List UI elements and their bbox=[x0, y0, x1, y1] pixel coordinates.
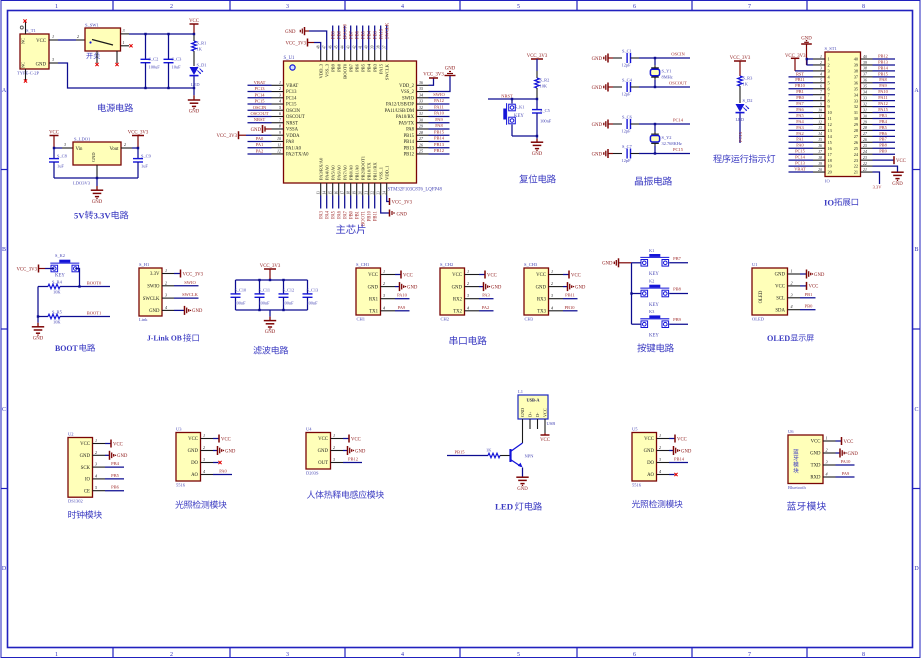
svg-text:S_Y1: S_Y1 bbox=[662, 69, 672, 74]
svg-text:12pF: 12pF bbox=[622, 63, 632, 68]
svg-text:GND: GND bbox=[644, 449, 655, 454]
svg-text:OSCIN: OSCIN bbox=[253, 105, 267, 110]
svg-text:PB9: PB9 bbox=[331, 30, 336, 39]
svg-text:PC15: PC15 bbox=[673, 147, 684, 152]
svg-text:17: 17 bbox=[341, 191, 345, 195]
svg-text:18: 18 bbox=[828, 158, 832, 163]
svg-text:D-: D- bbox=[535, 412, 540, 417]
svg-text:VDD_2: VDD_2 bbox=[399, 84, 414, 89]
svg-text:GND: GND bbox=[491, 285, 502, 290]
svg-text:1: 1 bbox=[165, 268, 167, 273]
svg-text:GND: GND bbox=[810, 452, 821, 457]
svg-text:100nF: 100nF bbox=[259, 301, 271, 306]
svg-text:34: 34 bbox=[863, 91, 867, 95]
svg-text:S_CH1: S_CH1 bbox=[356, 262, 369, 267]
svg-text:A: A bbox=[2, 88, 7, 94]
svg-text:USB: USB bbox=[547, 421, 556, 426]
svg-text:VCC: VCC bbox=[536, 273, 546, 278]
svg-text:C: C bbox=[2, 407, 6, 413]
svg-text:S_T1: S_T1 bbox=[26, 28, 36, 33]
svg-text:18: 18 bbox=[347, 191, 351, 195]
svg-text:OSCOUT: OSCOUT bbox=[669, 81, 687, 86]
svg-text:1: 1 bbox=[279, 80, 281, 85]
svg-text:PC13: PC13 bbox=[286, 90, 297, 95]
svg-text:40: 40 bbox=[863, 55, 867, 59]
svg-text:4: 4 bbox=[401, 652, 404, 658]
svg-text:VCC: VCC bbox=[318, 437, 328, 442]
svg-text:OSCOUT: OSCOUT bbox=[250, 111, 268, 116]
svg-text:PA9: PA9 bbox=[842, 471, 850, 476]
svg-text:GND: GND bbox=[407, 285, 418, 290]
svg-text:GND: GND bbox=[892, 182, 903, 187]
svg-text:GND: GND bbox=[91, 152, 96, 162]
svg-text:3: 3 bbox=[820, 67, 822, 71]
svg-text:PA7/A0: PA7/A0 bbox=[342, 165, 347, 180]
svg-text:PA15: PA15 bbox=[378, 63, 383, 74]
svg-text:12pF: 12pF bbox=[622, 129, 632, 134]
svg-text:PA0: PA0 bbox=[256, 136, 264, 141]
svg-text:PB3: PB3 bbox=[879, 113, 887, 118]
svg-text:32.768KHz: 32.768KHz bbox=[662, 141, 682, 146]
svg-text:PC13: PC13 bbox=[254, 86, 265, 91]
svg-text:B: B bbox=[2, 247, 6, 253]
svg-text:PB2/BOOT1: PB2/BOOT1 bbox=[360, 155, 365, 180]
svg-text:GND: GND bbox=[575, 285, 586, 290]
svg-text:GND: GND bbox=[285, 30, 296, 35]
svg-text:PA5/A0: PA5/A0 bbox=[330, 165, 335, 180]
svg-text:S_R5: S_R5 bbox=[52, 310, 63, 315]
svg-text:19: 19 bbox=[818, 162, 822, 166]
svg-text:1: 1 bbox=[203, 433, 205, 438]
svg-text:12: 12 bbox=[277, 149, 281, 154]
svg-text:VCC: VCC bbox=[188, 437, 198, 442]
svg-text:GND: GND bbox=[592, 152, 603, 157]
svg-text:OLED: OLED bbox=[767, 334, 790, 343]
svg-text:1K: 1K bbox=[197, 47, 203, 52]
svg-text:PA3: PA3 bbox=[319, 210, 324, 219]
svg-text:PB0: PB0 bbox=[349, 210, 354, 219]
svg-text:24: 24 bbox=[863, 150, 867, 154]
svg-text:PA4: PA4 bbox=[325, 210, 330, 219]
svg-text:PB13: PB13 bbox=[404, 146, 415, 151]
svg-text:S_U1: S_U1 bbox=[284, 56, 296, 61]
svg-text:AO: AO bbox=[191, 473, 198, 478]
svg-text:PB4: PB4 bbox=[111, 461, 120, 466]
svg-text:3.3V: 3.3V bbox=[94, 211, 112, 221]
svg-text:GND: GND bbox=[452, 285, 463, 290]
svg-text:SCL: SCL bbox=[776, 297, 785, 302]
svg-text:PC14: PC14 bbox=[254, 92, 265, 97]
svg-text:GND: GND bbox=[848, 452, 859, 457]
svg-text:DO: DO bbox=[191, 461, 198, 466]
svg-text:GND: GND bbox=[592, 123, 603, 128]
svg-text:PA7: PA7 bbox=[796, 101, 804, 106]
svg-text:IO: IO bbox=[825, 179, 830, 184]
svg-text:7: 7 bbox=[748, 4, 751, 10]
svg-text:PA10: PA10 bbox=[397, 293, 408, 298]
svg-text:KEY: KEY bbox=[514, 114, 524, 119]
svg-text:31: 31 bbox=[863, 108, 867, 112]
svg-text:PA15: PA15 bbox=[379, 28, 384, 39]
svg-text:2: 2 bbox=[826, 448, 828, 453]
svg-text:S_C4: S_C4 bbox=[622, 78, 633, 83]
svg-text:33: 33 bbox=[854, 98, 858, 103]
svg-text:S_C7: S_C7 bbox=[622, 144, 633, 149]
svg-text:PB3: PB3 bbox=[373, 30, 378, 39]
svg-text:PB1/A0: PB1/A0 bbox=[354, 164, 359, 180]
svg-text:VCC: VCC bbox=[49, 130, 59, 135]
svg-text:CH2: CH2 bbox=[441, 317, 450, 322]
svg-text:VCC_3V3: VCC_3V3 bbox=[392, 201, 413, 206]
svg-text:4: 4 bbox=[467, 305, 469, 310]
svg-text:8: 8 bbox=[862, 4, 865, 10]
svg-text:28: 28 bbox=[854, 128, 858, 133]
svg-text:RX2: RX2 bbox=[453, 297, 463, 302]
svg-text:38: 38 bbox=[863, 67, 867, 71]
svg-text:40: 40 bbox=[854, 57, 858, 62]
svg-text:3: 3 bbox=[64, 142, 66, 147]
svg-text:SWIO: SWIO bbox=[184, 280, 196, 285]
svg-text:9: 9 bbox=[820, 102, 822, 106]
svg-text:S_H1: S_H1 bbox=[139, 262, 149, 267]
svg-text:PB7: PB7 bbox=[673, 256, 682, 261]
svg-text:KEY: KEY bbox=[649, 272, 659, 277]
svg-text:BOOT: BOOT bbox=[55, 344, 79, 353]
svg-text:PB15: PB15 bbox=[454, 449, 465, 454]
svg-text:GND: GND bbox=[520, 408, 525, 417]
svg-text:PC14: PC14 bbox=[673, 118, 684, 123]
svg-text:GND: GND bbox=[532, 152, 543, 157]
svg-text:10K: 10K bbox=[53, 290, 61, 295]
svg-text:100nF: 100nF bbox=[307, 301, 319, 306]
svg-text:14: 14 bbox=[818, 132, 822, 136]
svg-text:PA12: PA12 bbox=[878, 101, 888, 106]
svg-text:VDD_1: VDD_1 bbox=[384, 165, 389, 180]
svg-text:PA8: PA8 bbox=[406, 128, 415, 133]
svg-text:26: 26 bbox=[419, 142, 423, 147]
svg-text:OUT: OUT bbox=[318, 461, 328, 466]
svg-text:PB15: PB15 bbox=[434, 129, 445, 134]
svg-text:3: 3 bbox=[165, 293, 167, 298]
svg-text:LED: LED bbox=[495, 502, 513, 512]
svg-text:OLED: OLED bbox=[759, 290, 764, 303]
svg-text:VSS_2: VSS_2 bbox=[401, 90, 415, 95]
svg-text:U1: U1 bbox=[752, 262, 758, 267]
svg-text:SWCLK: SWCLK bbox=[385, 22, 390, 39]
svg-text:PB7: PB7 bbox=[879, 137, 887, 142]
svg-text:PA6: PA6 bbox=[796, 107, 804, 112]
svg-text:VCC: VCC bbox=[221, 437, 231, 442]
svg-text:S_R2: S_R2 bbox=[540, 78, 550, 83]
svg-text:3: 3 bbox=[467, 293, 469, 298]
svg-text:PC14: PC14 bbox=[795, 155, 806, 160]
svg-text:TX1: TX1 bbox=[369, 310, 378, 315]
svg-text:D+: D+ bbox=[528, 411, 533, 417]
svg-text:STM32F103C8T6_LQFP48: STM32F103C8T6_LQFP48 bbox=[388, 188, 443, 193]
svg-text:23: 23 bbox=[377, 191, 381, 195]
svg-text:21: 21 bbox=[854, 170, 858, 175]
svg-text:19: 19 bbox=[828, 164, 832, 169]
svg-text:PA10: PA10 bbox=[878, 89, 888, 94]
svg-text:VBAT: VBAT bbox=[286, 84, 298, 89]
svg-text:S_C12: S_C12 bbox=[283, 288, 295, 293]
svg-text:1: 1 bbox=[52, 34, 54, 39]
svg-text:15: 15 bbox=[818, 138, 822, 142]
svg-text:25: 25 bbox=[854, 146, 858, 151]
svg-text:16: 16 bbox=[335, 191, 339, 195]
svg-text:PB8: PB8 bbox=[337, 30, 342, 39]
svg-text:PB14: PB14 bbox=[674, 457, 685, 462]
svg-text:VCC_3V3: VCC_3V3 bbox=[260, 264, 281, 269]
svg-text:PB9: PB9 bbox=[879, 149, 887, 154]
svg-text:S_R1: S_R1 bbox=[197, 41, 207, 46]
svg-text:VCC: VCC bbox=[113, 442, 123, 447]
svg-text:PB10: PB10 bbox=[564, 305, 575, 310]
svg-text:PA12/USB/DP: PA12/USB/DP bbox=[386, 103, 414, 108]
svg-text:2: 2 bbox=[333, 445, 335, 450]
svg-text:PB4: PB4 bbox=[366, 63, 371, 72]
svg-text:12pF: 12pF bbox=[622, 158, 632, 163]
svg-text:LDO3V3: LDO3V3 bbox=[73, 181, 91, 186]
svg-text:10: 10 bbox=[277, 136, 281, 141]
svg-text:GND: GND bbox=[355, 449, 366, 454]
svg-text:25: 25 bbox=[863, 144, 867, 148]
svg-text:1uF: 1uF bbox=[141, 164, 148, 169]
svg-text:20: 20 bbox=[818, 168, 822, 172]
svg-text:39: 39 bbox=[854, 63, 858, 68]
svg-text:SCK: SCK bbox=[81, 466, 91, 471]
svg-text:VCC_3V3: VCC_3V3 bbox=[527, 54, 548, 59]
svg-text:GND: GND bbox=[445, 67, 456, 72]
svg-text:21: 21 bbox=[863, 168, 867, 172]
svg-text:2: 2 bbox=[170, 4, 173, 10]
svg-text:8: 8 bbox=[279, 124, 281, 129]
svg-text:VDD_3: VDD_3 bbox=[318, 63, 323, 78]
svg-text:PA8: PA8 bbox=[435, 123, 443, 128]
svg-text:KEY: KEY bbox=[649, 303, 659, 308]
svg-text:SWIO: SWIO bbox=[402, 96, 415, 101]
svg-text:D203S: D203S bbox=[306, 471, 319, 476]
svg-text:VCC: VCC bbox=[896, 159, 906, 164]
svg-text:S_R4: S_R4 bbox=[52, 280, 63, 285]
svg-text:TXD: TXD bbox=[811, 464, 821, 469]
svg-text:PA7: PA7 bbox=[343, 210, 348, 219]
svg-text:9: 9 bbox=[828, 104, 830, 109]
svg-text:1: 1 bbox=[95, 438, 97, 443]
svg-text:PB1: PB1 bbox=[805, 292, 813, 297]
svg-text:29: 29 bbox=[419, 124, 423, 129]
svg-text:CE: CE bbox=[84, 489, 90, 494]
svg-text:12pF: 12pF bbox=[622, 92, 632, 97]
svg-text:VCC: VCC bbox=[571, 273, 581, 278]
svg-text:9: 9 bbox=[279, 130, 281, 135]
svg-text:8MHz: 8MHz bbox=[662, 75, 673, 80]
svg-text:PB4: PB4 bbox=[367, 30, 372, 39]
svg-text:3: 3 bbox=[828, 69, 830, 74]
svg-text:S_D1: S_D1 bbox=[197, 63, 207, 68]
svg-text:VCC_3V3: VCC_3V3 bbox=[285, 42, 306, 47]
svg-text:PC15: PC15 bbox=[254, 99, 265, 104]
svg-text:1: 1 bbox=[467, 269, 469, 274]
svg-text:PA11: PA11 bbox=[434, 104, 444, 109]
svg-text:NRST: NRST bbox=[254, 117, 266, 122]
svg-text:K3: K3 bbox=[649, 309, 655, 314]
svg-text:PA6/A0: PA6/A0 bbox=[336, 165, 341, 180]
svg-text:PB12: PB12 bbox=[878, 53, 888, 58]
svg-text:5516: 5516 bbox=[632, 483, 642, 488]
svg-text:36: 36 bbox=[863, 79, 867, 83]
svg-text:100nF: 100nF bbox=[235, 301, 247, 306]
svg-text:1: 1 bbox=[551, 269, 553, 274]
svg-text:PA2: PA2 bbox=[482, 305, 490, 310]
svg-text:BOOT0: BOOT0 bbox=[343, 23, 348, 39]
svg-text:PB1: PB1 bbox=[355, 210, 360, 219]
svg-text:PB6: PB6 bbox=[879, 131, 887, 136]
svg-text:S_R3: S_R3 bbox=[743, 76, 754, 81]
svg-text:18: 18 bbox=[818, 156, 822, 160]
svg-text:8: 8 bbox=[820, 96, 822, 100]
svg-text:SWCLK: SWCLK bbox=[143, 297, 160, 302]
svg-text:33: 33 bbox=[419, 99, 423, 104]
svg-text:BOOT0: BOOT0 bbox=[342, 63, 347, 79]
svg-text:U2: U2 bbox=[68, 432, 74, 437]
svg-text:3: 3 bbox=[826, 460, 828, 465]
svg-text:19: 19 bbox=[353, 191, 357, 195]
svg-text:PA15: PA15 bbox=[878, 107, 888, 112]
svg-text:PA11: PA11 bbox=[878, 95, 887, 100]
svg-text:PA4: PA4 bbox=[796, 119, 804, 124]
svg-text:VBAT: VBAT bbox=[794, 166, 806, 171]
svg-text:22: 22 bbox=[371, 191, 375, 195]
svg-text:4: 4 bbox=[383, 305, 385, 310]
svg-text:PB6: PB6 bbox=[111, 485, 120, 490]
svg-text:GND: GND bbox=[775, 273, 786, 278]
svg-text:PB7: PB7 bbox=[348, 63, 353, 72]
svg-text:1: 1 bbox=[791, 269, 793, 274]
svg-text:U4: U4 bbox=[306, 427, 312, 432]
svg-text:OSCIN: OSCIN bbox=[286, 109, 301, 114]
svg-text:6: 6 bbox=[820, 85, 822, 89]
svg-text:3: 3 bbox=[791, 292, 793, 297]
svg-text:VSSA: VSSA bbox=[286, 128, 299, 133]
svg-text:PB11: PB11 bbox=[565, 293, 575, 298]
svg-text:32: 32 bbox=[854, 104, 858, 109]
svg-text:100uF: 100uF bbox=[149, 65, 161, 70]
svg-text:GND: GND bbox=[36, 62, 47, 67]
svg-text:29: 29 bbox=[863, 120, 867, 124]
svg-text:PB1: PB1 bbox=[796, 89, 804, 94]
svg-text:PA11/USB/DM: PA11/USB/DM bbox=[385, 109, 415, 114]
svg-text:10: 10 bbox=[818, 108, 822, 112]
svg-text:VCC_3V3: VCC_3V3 bbox=[16, 268, 37, 273]
svg-text:VSS_1: VSS_1 bbox=[378, 166, 383, 180]
svg-text:K1: K1 bbox=[649, 248, 654, 253]
svg-text:1: 1 bbox=[828, 57, 830, 62]
svg-text:S_C9: S_C9 bbox=[141, 154, 152, 159]
svg-text:OSCIN: OSCIN bbox=[671, 52, 685, 57]
svg-text:RX3: RX3 bbox=[537, 297, 547, 302]
svg-text:33: 33 bbox=[863, 96, 867, 100]
svg-text:4: 4 bbox=[820, 73, 822, 77]
svg-text:32: 32 bbox=[419, 105, 423, 110]
svg-text:S_K1: S_K1 bbox=[515, 105, 525, 110]
svg-text:RX1: RX1 bbox=[369, 297, 379, 302]
svg-text:J-Link OB: J-Link OB bbox=[147, 334, 182, 343]
svg-text:PB15: PB15 bbox=[878, 71, 889, 76]
svg-text:GND: GND bbox=[80, 454, 91, 459]
svg-text:S_C11: S_C11 bbox=[259, 288, 271, 293]
svg-text:BOOT1: BOOT1 bbox=[87, 310, 102, 315]
svg-text:39: 39 bbox=[863, 61, 867, 65]
svg-text:28: 28 bbox=[419, 130, 423, 135]
svg-text:TYPE-C-2P: TYPE-C-2P bbox=[17, 71, 39, 76]
svg-text:LED: LED bbox=[191, 82, 200, 87]
svg-text:AO: AO bbox=[647, 473, 654, 478]
svg-text:35: 35 bbox=[419, 86, 423, 91]
svg-text:VCC_3V3: VCC_3V3 bbox=[128, 130, 149, 135]
svg-text:VCC: VCC bbox=[844, 440, 854, 445]
svg-text:5: 5 bbox=[820, 79, 822, 83]
svg-text:PA12: PA12 bbox=[434, 98, 444, 103]
svg-text:OLED: OLED bbox=[752, 317, 765, 322]
svg-text:GND: GND bbox=[265, 330, 276, 335]
svg-text:TX2: TX2 bbox=[453, 310, 462, 315]
svg-text:DS1302: DS1302 bbox=[68, 499, 83, 504]
svg-text:4: 4 bbox=[165, 305, 167, 310]
svg-text:IO: IO bbox=[85, 478, 91, 483]
svg-text:RXD: RXD bbox=[810, 476, 821, 481]
svg-text:VCC: VCC bbox=[487, 273, 497, 278]
svg-text:PB4: PB4 bbox=[879, 119, 887, 124]
svg-text:VCC_3V3: VCC_3V3 bbox=[423, 73, 444, 78]
svg-text:GND: GND bbox=[189, 110, 200, 115]
svg-text:GND: GND bbox=[592, 86, 603, 91]
svg-text:2: 2 bbox=[124, 142, 126, 147]
svg-text:OSCOUT: OSCOUT bbox=[286, 115, 305, 120]
svg-text:PB0/A0: PB0/A0 bbox=[348, 164, 353, 180]
svg-text:1K: 1K bbox=[486, 448, 492, 453]
svg-text:BOOT0: BOOT0 bbox=[87, 280, 102, 285]
svg-text:15: 15 bbox=[828, 140, 832, 145]
svg-text:3: 3 bbox=[122, 28, 124, 33]
svg-text:PB8: PB8 bbox=[673, 287, 682, 292]
svg-text:VCC: VCC bbox=[775, 285, 785, 290]
svg-text:2: 2 bbox=[659, 445, 661, 450]
svg-text:PA3: PA3 bbox=[482, 293, 490, 298]
svg-text:PA10: PA10 bbox=[841, 459, 852, 464]
svg-text:PB14: PB14 bbox=[434, 136, 445, 141]
svg-text:S_K2: S_K2 bbox=[55, 253, 65, 258]
svg-text:PB9: PB9 bbox=[673, 317, 682, 322]
svg-text:Bluetooth: Bluetooth bbox=[788, 485, 806, 490]
svg-text:10K: 10K bbox=[540, 84, 548, 89]
svg-text:30: 30 bbox=[854, 116, 858, 121]
svg-text:2: 2 bbox=[77, 34, 79, 39]
svg-text:15: 15 bbox=[329, 191, 333, 195]
svg-text:PB10/TX: PB10/TX bbox=[366, 162, 371, 180]
svg-text:VCC: VCC bbox=[809, 285, 819, 290]
svg-text:7: 7 bbox=[748, 652, 751, 658]
svg-text:Link: Link bbox=[139, 317, 148, 322]
svg-text:VDDA: VDDA bbox=[286, 134, 300, 139]
svg-text:PB10: PB10 bbox=[367, 210, 372, 221]
svg-text:PA8: PA8 bbox=[286, 140, 295, 145]
svg-text:PB11/RX: PB11/RX bbox=[372, 162, 377, 180]
svg-text:3.3V: 3.3V bbox=[873, 185, 883, 190]
svg-text:GND: GND bbox=[251, 128, 262, 133]
svg-text:PB0: PB0 bbox=[796, 95, 804, 100]
svg-text:PB12: PB12 bbox=[348, 457, 358, 462]
